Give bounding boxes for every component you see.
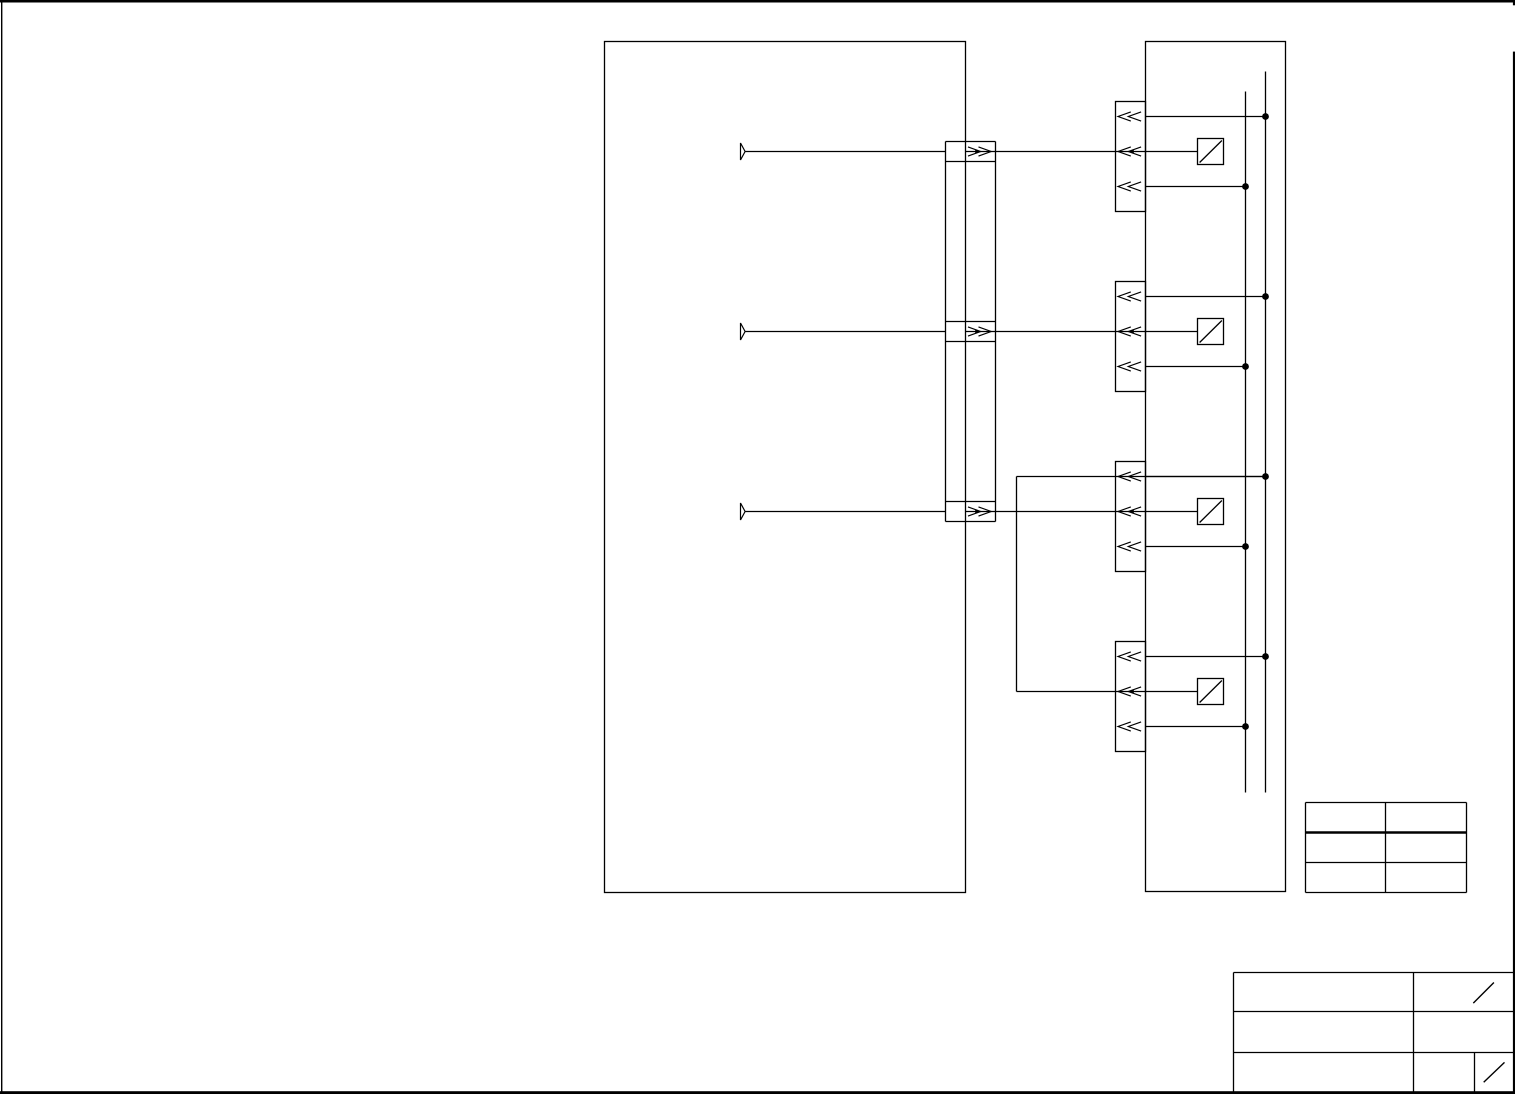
connector T1 cell 2 [946,321,996,323]
connector T2d pin 3 symbol &lt;&lt; [1118,722,1141,731]
connector T2c pin 3 symbol &lt;&lt; [1118,542,1141,551]
connector T2d pin 2 symbol &lt;&lt; [1118,687,1141,696]
connector T2b pin 2 symbol &lt;&lt; [1118,327,1141,336]
wire connector 1 to lamp group [966,151,1198,153]
antenna 1 terminal [741,143,746,160]
component carrier box (right) [1146,42,1286,892]
connector T2b box [1116,282,1146,392]
wire antenna 3 to connector strip [745,511,945,513]
junction dot bus 2 [1262,653,1269,660]
title block [1234,973,1514,1093]
connector T2c box [1116,462,1146,572]
junction dot bus 2 [1262,113,1269,120]
wire T2c pin 3 to bus 1 [1146,546,1246,548]
connector T1 cell 1 [946,141,996,143]
wire T2a pin 3 to bus 1 [1146,186,1246,188]
connector strip T1 right column [995,142,997,522]
connector T2a pin 1 symbol &lt;&lt; [1118,112,1141,121]
connector strip T1 left column [945,142,947,522]
wire antenna 2 to connector strip [745,331,945,333]
title block slash mark top [1473,983,1494,1004]
wire T2d pin 3 to bus 1 [1146,726,1246,728]
bus 1 (vertical) [1245,92,1247,793]
wire T2c pin 1 to bus 2 [1146,476,1266,478]
junction dot bus 1 [1242,363,1249,370]
junction dot bus 2 [1262,293,1269,300]
wire node A horizontal to T2d pin 2 and lamp E4 [1017,691,1198,693]
wire T2b pin 3 to bus 1 [1146,366,1246,368]
wire T2b pin 1 to bus 2 [1146,296,1266,298]
page frame left border [1,2,2,1092]
bus 2 (vertical) [1265,72,1267,793]
junction dot bus 1 [1242,723,1249,730]
connector T1 pin 2 symbol &gt;&gt; [968,327,991,336]
junction dot bus 1 [1242,543,1249,550]
page frame right border [1513,52,1515,1094]
connector T2c pin 2 symbol &lt;&lt; [1118,507,1141,516]
revision table [1306,803,1467,893]
junction dot bus 2 [1262,473,1269,480]
connector T1 pin 1 symbol &gt;&gt; [968,147,991,156]
antenna 3 terminal [741,503,746,520]
lamp E1 (square with diagonal) [1198,139,1224,165]
antenna 2 terminal [741,323,746,340]
control unit J1 (large box) [605,42,966,893]
wire T2d pin 1 to bus 2 [1146,656,1266,658]
wire connector 2 to lamp group [966,331,1198,333]
page frame top border [0,0,1515,3]
lamp E2 (square with diagonal) [1198,319,1224,345]
page frame bottom border [0,1091,1515,1094]
connector T1 cell 3 [946,501,996,503]
connector T2d pin 1 symbol &lt;&lt; [1118,652,1141,661]
title block slash mark bottom [1484,1062,1505,1082]
connector T2b pin 1 symbol &lt;&lt; [1118,292,1141,301]
lamp E4 (square with diagonal) [1198,679,1224,705]
connector T2a box [1116,102,1146,212]
junction dot bus 1 [1242,183,1249,190]
connector T2a pin 2 symbol &lt;&lt; [1118,147,1141,156]
wire T2a pin 1 to bus 2 [1146,116,1266,118]
connector T2d box [1116,642,1146,752]
connector T2b pin 3 symbol &lt;&lt; [1118,362,1141,371]
page frame right border top stub [1513,0,1515,5]
connector T2c pin 1 symbol &lt;&lt; [1118,472,1141,481]
connector T1 pin 3 symbol &gt;&gt; [968,507,991,516]
wire antenna 1 to connector strip [745,151,945,153]
wire node A horizontal to T2c pin 1 and bus 2 [1017,476,1266,478]
wire node A vertical riser [1016,477,1018,692]
connector T2a pin 3 symbol &lt;&lt; [1118,182,1141,191]
wire connector 3 to lamp group [966,511,1198,513]
lamp E3 (square with diagonal) [1198,499,1224,525]
